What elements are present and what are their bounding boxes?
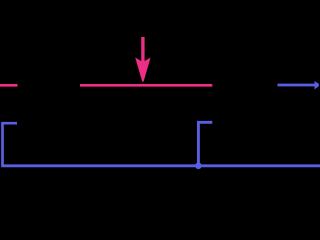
current arrow I2 (blue, pointing right at top-right) [278,81,319,89]
wire left lead (blue, stub to hidden component then down) [3,123,18,166]
junction (blue dot where middle vertical meets bottom rail) [195,163,202,170]
wire bottom rail (blue return path) [1,164,320,167]
wire middle vertical with stub (blue) [198,122,212,166]
wire top-left segment (pink, into hidden component) [0,84,18,87]
wire top-middle segment (pink, node between components) [80,84,212,87]
current arrow I1 (pink, pointing down onto top wire) [135,37,150,82]
